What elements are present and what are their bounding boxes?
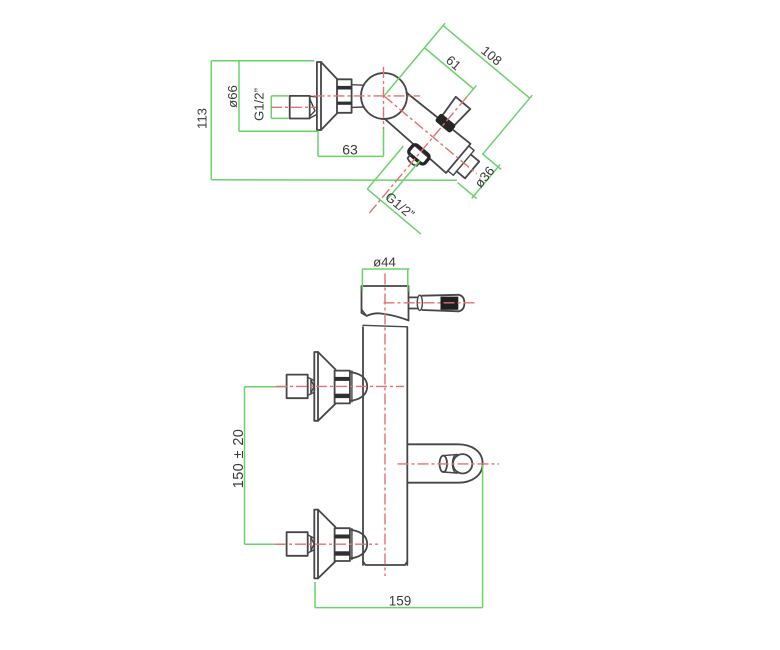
extension line from outlet stub end (top view): [483, 95, 532, 154]
extension line at y131 (top view): [239, 130, 318, 132]
neck between nut and ball joint (top view): [352, 85, 364, 108]
centreline body axis 40deg (top view): [384, 96, 477, 174]
upper escutcheon cone (front view): [318, 352, 336, 421]
centreline vertical body axis (front view): [384, 274, 386, 577]
extension line bottom reference (top view): [211, 179, 457, 182]
centreline wall thread axis (top view): [271, 106, 316, 108]
body of mixer rotated 40deg (top view): [374, 71, 502, 196]
joint ring below housing (front view): [363, 325, 407, 327]
centreline holder bracket axis (front view): [398, 463, 500, 465]
svg-text:113: 113: [195, 108, 210, 129]
svg-text:63: 63: [342, 142, 358, 158]
centreline upper union axis (front view): [276, 385, 404, 387]
escutcheon wall plate (top view): [317, 62, 321, 130]
ball joint (top view): [361, 73, 407, 119]
lower union taper (front view): [308, 535, 315, 553]
centreline handle axis (front view): [384, 302, 476, 304]
shower holder bracket (front view): [407, 444, 482, 482]
upper escutcheon plate (front view): [314, 352, 318, 421]
escutcheon cone (top view): [321, 62, 337, 130]
lower boss into body (front view): [350, 529, 367, 560]
label G1/2 inch wall thread (top view): [252, 88, 289, 121]
outlet thread stub ~G1/2 (top view): [457, 154, 480, 178]
union nut (top view): [337, 79, 352, 113]
handle grip (front view): [422, 295, 464, 312]
wall thread G1/2 block (top view): [290, 96, 310, 119]
svg-text:159: 159: [389, 594, 412, 609]
centreline ball horizontal axis (top view): [314, 95, 421, 97]
dimension 108 (top view): [443, 14, 540, 99]
dimension 113 (top view left): [195, 61, 212, 180]
dimension 63 (top view): [318, 128, 384, 158]
shower hose union ring (top view): [404, 143, 431, 170]
svg-text:150 ± 20: 150 ± 20: [231, 429, 247, 489]
svg-text:ø66: ø66: [225, 85, 240, 108]
cartridge housing top cylinder (front view): [362, 286, 409, 320]
upper union taper (front view): [308, 377, 315, 395]
centreline handle and hose union axis (top view): [369, 97, 466, 213]
dimension 150 +-20 (front view): [231, 387, 286, 544]
extension line top of escutcheon (top view): [211, 60, 314, 62]
eccentric taper between thread and escutcheon (top view): [310, 96, 317, 118]
lower wall union thread block (front view): [287, 532, 308, 556]
centreline lower union axis (front view): [275, 543, 378, 545]
handle stem (front view): [409, 295, 423, 310]
label G1/2 inch hose outlet (top view): [367, 146, 457, 234]
lever handle (top view): [435, 96, 470, 133]
extension ray through ball centre (top view): [384, 23, 445, 96]
extension line from handle (top view): [466, 85, 477, 98]
body barrel: [383, 91, 476, 177]
upper wall union thread block (front view): [287, 375, 308, 399]
lower escutcheon cone (front view): [318, 510, 336, 579]
dimension o44 (front view): [362, 255, 409, 292]
lower union nut (front view): [335, 528, 350, 561]
upper boss into body (front view): [350, 371, 367, 402]
centreline ball vertical axis (top view): [383, 67, 385, 129]
lower escutcheon plate (front view): [314, 510, 318, 579]
dimension 61 (top view): [424, 37, 483, 90]
holder knob circles (front view): [440, 454, 473, 473]
svg-text:ø44: ø44: [373, 255, 396, 270]
body tube (front view): [363, 327, 407, 565]
dimension o66 escutcheon diameter (top view): [225, 61, 240, 132]
svg-text:G1/2”: G1/2”: [252, 88, 267, 121]
dimension 159 (front view): [315, 465, 483, 609]
dimension o36 outlet (top view): [456, 151, 503, 201]
upper union nut (front view): [335, 371, 350, 404]
